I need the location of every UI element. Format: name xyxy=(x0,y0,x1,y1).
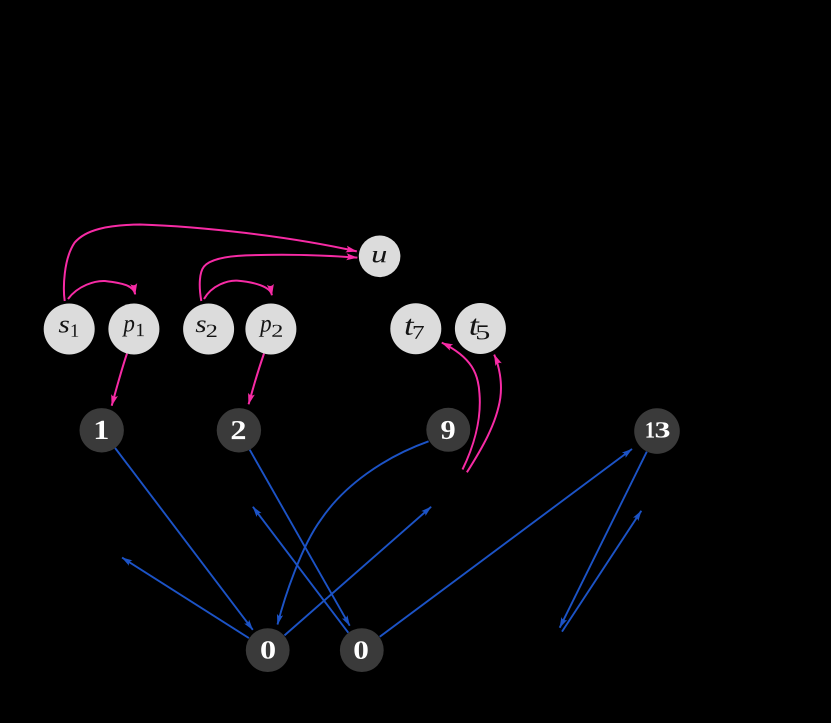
wire blue 0 right to 13 xyxy=(380,449,632,637)
wire magenta p2 to node 2 xyxy=(249,354,264,405)
node p2 xyxy=(245,304,296,355)
node 1 xyxy=(80,408,124,452)
wire blue 0 right up-left xyxy=(253,507,348,633)
wire blue 2 to 0 right xyxy=(250,450,350,626)
wire blue up-right to mid air xyxy=(562,511,641,632)
wire magenta s1 to p1 xyxy=(68,281,135,299)
wire blue 9 to 0 left curved xyxy=(278,441,429,624)
wire blue 1 to 0 left xyxy=(115,448,253,630)
wire magenta s2 to u xyxy=(200,255,358,301)
node s1 xyxy=(44,304,95,355)
node u xyxy=(359,235,401,277)
wire blue 13 down-left xyxy=(560,452,647,628)
wire blue 0 left up-right xyxy=(285,507,432,636)
wire magenta p1 to node 1 xyxy=(112,354,127,406)
node 0 right xyxy=(340,628,384,672)
node 2 xyxy=(217,408,261,452)
wire magenta s2 to p2 xyxy=(204,281,272,299)
wire magenta up to t7 xyxy=(442,343,480,470)
node t7 xyxy=(390,303,441,354)
wire blue 0 left up-left xyxy=(122,558,249,639)
wire magenta up to t5 xyxy=(467,355,501,473)
node s2 xyxy=(183,304,234,355)
node t5 xyxy=(455,303,506,354)
node p1 xyxy=(108,304,159,355)
node 13 xyxy=(634,408,680,454)
node 0 left xyxy=(246,628,290,672)
wire magenta s1 to u xyxy=(64,225,357,302)
node 9 xyxy=(426,408,470,452)
